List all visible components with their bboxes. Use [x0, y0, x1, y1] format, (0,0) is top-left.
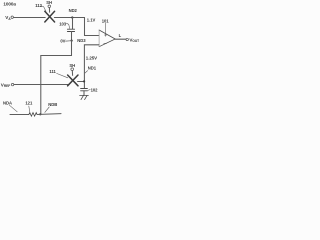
- svg-text:112: 112: [35, 3, 42, 8]
- terminal VA: [5, 15, 13, 21]
- node ND3 junction dot: [71, 40, 73, 42]
- label 0V with pointer: [60, 39, 70, 44]
- label 102 with leader: [88, 87, 98, 92]
- svg-text:102: 102: [91, 87, 99, 92]
- wire switch 111 to node ND1: [78, 81, 85, 83]
- terminal VIN: [1, 82, 14, 88]
- SH control circle and line (bottom switch): [71, 68, 74, 76]
- svg-text:101: 101: [102, 19, 110, 24]
- wire VA to switch 112: [13, 17, 45, 19]
- svg-text:0V: 0V: [60, 39, 65, 44]
- svg-text:ND2: ND2: [69, 8, 78, 13]
- ground symbol: [80, 95, 89, 99]
- terminal VOUT: [126, 37, 139, 43]
- wire capacitor 103 to node ND3: [71, 32, 73, 41]
- capacitor 102: [81, 89, 88, 91]
- svg-text:NDB: NDB: [48, 102, 57, 107]
- switch 111 (X symbol): [68, 75, 78, 86]
- op-amp U101 triangle: [99, 30, 115, 47]
- node ND1 junction dot: [83, 80, 85, 82]
- svg-text:103: 103: [59, 21, 67, 26]
- SH control circle and line (top switch): [48, 5, 51, 12]
- corner wire ND2 to op-amp + input: [85, 18, 99, 36]
- svg-text:1.25V: 1.25V: [86, 55, 97, 60]
- label 121 with leader: [25, 101, 33, 112]
- label ND1 with leader: [85, 66, 97, 73]
- label 111 with leader: [49, 69, 67, 78]
- op-amp + sign: [104, 34, 106, 36]
- label 103 with leader: [59, 21, 69, 28]
- svg-text:SH: SH: [69, 63, 75, 68]
- divider tap junction dot: [39, 113, 41, 115]
- svg-text:VREF: VREF: [1, 82, 10, 88]
- wire op-amp - input feedback to ND1: [84, 45, 99, 88]
- svg-text:ND1: ND1: [88, 66, 97, 71]
- label NDB with leader: [45, 102, 57, 113]
- capacitor 103: [67, 29, 74, 31]
- svg-text:1.1V: 1.1V: [87, 18, 96, 23]
- node ND2 junction dot: [71, 16, 73, 18]
- bottom wire right segment: [37, 113, 61, 116]
- bottom wire left segment: [10, 114, 29, 116]
- svg-text:VA: VA: [5, 15, 11, 21]
- wire ND2 down to capacitor 103: [72, 18, 74, 29]
- switch 112 (X symbol): [45, 11, 55, 22]
- wire switch 112 to node ND2 and corner: [54, 17, 84, 19]
- svg-text:NDA: NDA: [3, 101, 12, 106]
- label 112 with leader: [35, 3, 46, 11]
- op-amp - sign: [104, 43, 106, 45]
- label 101 with leader: [102, 19, 110, 34]
- svg-text:111: 111: [49, 69, 56, 74]
- svg-text:VOUT: VOUT: [129, 37, 139, 43]
- resistor 121 zigzag: [29, 113, 37, 117]
- svg-text:121: 121: [25, 101, 33, 106]
- svg-text:1000a: 1000a: [3, 2, 16, 7]
- output wire with label L: [115, 38, 126, 40]
- svg-text:ND3: ND3: [77, 38, 86, 43]
- wire VIN to switch 111: [14, 84, 69, 86]
- wire capacitor 102 to ground: [83, 91, 85, 96]
- label NDA with leader: [3, 101, 17, 112]
- svg-text:SH: SH: [46, 0, 52, 5]
- wire ND3 down and left to divider tap: [41, 41, 72, 115]
